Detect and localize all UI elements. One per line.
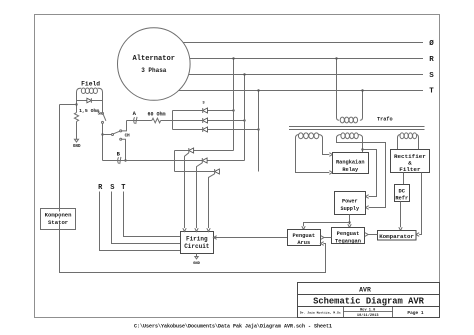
wire node A <box>127 120 152 122</box>
firing circuit U1 <box>181 232 214 254</box>
switch CH <box>103 130 131 140</box>
svg-text:Schematic Diagram AVR: Schematic Diagram AVR <box>313 297 425 307</box>
gate arrow 1 <box>183 228 186 231</box>
svg-text:Komponen: Komponen <box>45 212 72 219</box>
wire scr row 1 <box>175 150 234 152</box>
diode D4 freewheel <box>87 98 92 103</box>
node primary tap R <box>335 57 337 59</box>
svg-text:Dr. Jaja Kustija, M.Sc: Dr. Jaja Kustija, M.Sc <box>300 310 341 314</box>
node B connector <box>117 151 121 165</box>
transformer secondary S1 <box>296 133 330 173</box>
svg-text:Power: Power <box>342 198 358 204</box>
arrow into power supply upper <box>366 195 369 199</box>
node R drop <box>232 57 234 59</box>
wire stator loop <box>60 105 326 273</box>
svg-text:Filter: Filter <box>399 166 421 173</box>
svg-text:DC: DC <box>399 189 406 195</box>
wire rectifier to dc refr <box>403 173 405 185</box>
arrow tegangan output <box>365 233 368 237</box>
svg-text:S: S <box>429 72 434 80</box>
rangkaian relay box U2 <box>333 153 369 174</box>
svg-text:Arus: Arus <box>297 240 310 246</box>
node A connector <box>133 110 137 124</box>
wire T phase drop <box>258 91 260 172</box>
svg-text:AVR: AVR <box>359 286 371 293</box>
svg-text:10/11/2013: 10/11/2013 <box>357 313 379 318</box>
wire dc refr to komparator <box>400 202 402 228</box>
svg-text:Rangkaian: Rangkaian <box>336 159 365 165</box>
arrow into komparator right <box>416 233 419 237</box>
svg-text:Tegangan: Tegangan <box>335 238 361 244</box>
svg-text:60 Ohm: 60 Ohm <box>147 112 165 118</box>
arrow into arus feedback <box>321 242 324 246</box>
wire diode row 1 <box>173 110 234 112</box>
wire diode fan bar <box>172 111 174 130</box>
wire rectifier to komparator right <box>419 173 421 235</box>
wire S to firing circuit <box>112 192 181 244</box>
wire tegangan to komparator <box>368 234 377 236</box>
node S drop <box>243 73 245 75</box>
svg-text:Firing: Firing <box>186 236 208 243</box>
wire power supply bottom <box>349 215 351 225</box>
svg-text:S: S <box>110 184 114 192</box>
thyristor Q3 <box>209 169 220 228</box>
node diode row1 to R drop <box>232 109 234 111</box>
gate arrow 3 <box>207 228 210 231</box>
wire to ground <box>76 122 78 140</box>
svg-text:Stator: Stator <box>48 219 68 226</box>
thyristor Q1 <box>185 148 194 228</box>
svg-text:Refr: Refr <box>395 196 408 202</box>
wire firing to penguat arus <box>214 237 288 239</box>
diode D2 <box>203 118 208 123</box>
rectifier filter box U3 <box>391 150 430 173</box>
thyristor Q2 <box>197 158 208 228</box>
svg-text:T: T <box>429 88 434 96</box>
komponen stator box <box>41 209 76 230</box>
wire S2 to power supply upper <box>363 150 377 197</box>
svg-text:GND: GND <box>73 145 81 149</box>
svg-text:1,5 Ohm: 1,5 Ohm <box>79 108 99 114</box>
ground GND1 <box>75 139 79 142</box>
wire node B row <box>103 160 203 162</box>
node diode row3 to T drop <box>257 128 259 130</box>
node power split <box>348 221 350 223</box>
wire arus to tegangan <box>324 237 332 239</box>
arrow into firing right <box>214 236 217 240</box>
wire field to stator loop <box>60 104 77 106</box>
border frame <box>35 15 440 318</box>
transformer secondary S2 <box>337 133 386 208</box>
switch Sw <box>98 101 106 161</box>
node S2 right tap <box>361 148 363 150</box>
svg-text:Komparator: Komparator <box>379 233 414 240</box>
wire scr row 2 right <box>207 160 244 162</box>
svg-text:R: R <box>429 56 434 64</box>
diode D1 <box>203 108 208 113</box>
svg-text:T: T <box>121 184 125 192</box>
svg-text:Trafo: Trafo <box>377 117 393 123</box>
svg-text:Rev 1.0: Rev 1.0 <box>360 308 375 312</box>
node diode row2 to S drop <box>243 119 245 121</box>
penguat arus box U6 <box>288 230 321 247</box>
arrow into relay upper <box>329 153 332 157</box>
wire R phase drop <box>233 59 235 151</box>
title block <box>298 283 440 319</box>
arrow into penguat tegangan top <box>348 224 351 227</box>
node field tap <box>75 103 77 105</box>
svg-text:Circuit: Circuit <box>184 243 210 250</box>
komparator box U8 <box>378 231 417 241</box>
wire phase S <box>156 74 423 76</box>
wire CH top contact to node A <box>122 121 127 131</box>
wire R to firing circuit <box>100 192 181 251</box>
diode D3 <box>203 127 208 132</box>
svg-text:Supply: Supply <box>340 206 360 212</box>
power supply box U5 <box>335 192 366 215</box>
svg-text:GND: GND <box>193 262 201 266</box>
svg-text:Relay: Relay <box>342 167 359 173</box>
wire phase T <box>156 90 423 92</box>
node T drop <box>257 89 259 91</box>
dc reference box U4 <box>395 185 410 202</box>
ground GND2 <box>195 257 198 259</box>
gate arrow 2 <box>195 228 198 231</box>
arrow into komparator top <box>399 227 402 230</box>
svg-text:Penguat: Penguat <box>337 231 360 237</box>
transformer secondary S3 <box>398 133 419 150</box>
svg-text:Alternator: Alternator <box>133 55 176 63</box>
wire diode row 3 <box>173 129 259 131</box>
wire S phase drop <box>244 75 246 161</box>
arrow into power supply lower <box>366 206 369 210</box>
svg-text:Ø: Ø <box>429 39 434 48</box>
wire scr fan bar <box>174 151 176 172</box>
arrow into penguat arus top <box>302 226 305 229</box>
node primary tap T <box>361 89 363 91</box>
arrow arus output <box>321 236 324 240</box>
svg-text:Penguat: Penguat <box>292 233 315 239</box>
wire A to diode fan <box>161 120 245 122</box>
svg-text:Field: Field <box>81 81 100 88</box>
transformer primary winding <box>337 59 363 123</box>
node CH-B junction <box>124 159 126 161</box>
transformer T1 core <box>289 126 425 128</box>
wire firing gnd stub <box>196 254 198 257</box>
node junction Sw/CH <box>101 133 103 135</box>
svg-text:3 Phasa: 3 Phasa <box>141 67 167 74</box>
wire phase O <box>156 42 423 44</box>
penguat tegangan box U7 <box>332 228 365 245</box>
wire power to penguat arus <box>304 223 350 227</box>
wire phase R <box>156 58 423 60</box>
wire T to firing circuit <box>124 192 181 237</box>
svg-text:Page 1: Page 1 <box>407 310 424 316</box>
svg-text:C:\Users\Yakobuse\Documents\Da: C:\Users\Yakobuse\Documents\Data Pak Jaj… <box>134 324 332 330</box>
wire scr row 3 <box>175 171 220 173</box>
wire field loop bottom <box>77 100 103 102</box>
arrow into relay lower <box>329 171 332 175</box>
field coil L1 <box>77 81 103 113</box>
wire CH bottom contact to node B <box>122 139 126 160</box>
alternator G1 <box>118 28 191 101</box>
svg-text:CH: CH <box>125 134 131 138</box>
